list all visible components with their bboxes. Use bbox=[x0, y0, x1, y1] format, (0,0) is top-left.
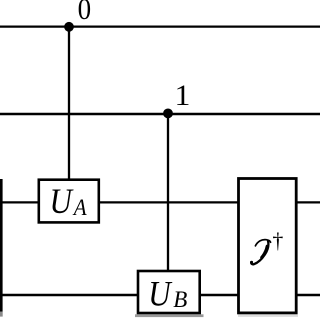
control dot 0 bbox=[64, 22, 74, 32]
svg-text:0: 0 bbox=[78, 0, 91, 26]
gate U_A box bbox=[39, 180, 99, 223]
label 0 bbox=[78, 0, 91, 26]
wire q3 bbox=[0, 294, 320, 296]
shadow bottom-left bbox=[0, 312, 3, 317]
dagger bbox=[272, 228, 283, 253]
svg-text:†: † bbox=[272, 228, 283, 253]
script J glyph bbox=[251, 240, 270, 265]
gate U_A label U bbox=[50, 182, 74, 221]
wire q0 bbox=[0, 25, 320, 27]
svg-text:U: U bbox=[50, 182, 74, 221]
cropped gate edge at left margin bbox=[0, 179, 3, 312]
shadow under U_B bbox=[135, 314, 204, 317]
control wire dot0 to U_A bbox=[68, 27, 70, 181]
gate U_B label subscript B bbox=[173, 286, 187, 312]
svg-text:B: B bbox=[173, 286, 187, 312]
wire q1 bbox=[0, 113, 320, 115]
control wire dot1 to U_B bbox=[167, 114, 169, 272]
gate U_B box bbox=[138, 271, 200, 313]
gate U_B label U bbox=[148, 274, 172, 313]
svg-text:U: U bbox=[148, 274, 172, 313]
script J ball terminal bbox=[250, 261, 253, 264]
shadow under J box bbox=[238, 315, 298, 317]
label 1 bbox=[175, 79, 191, 111]
gate U_A label subscript A bbox=[72, 194, 87, 220]
svg-text:1: 1 bbox=[175, 79, 191, 111]
gate J-dagger box bbox=[239, 179, 297, 313]
control dot 1 bbox=[163, 109, 173, 119]
svg-text:A: A bbox=[72, 194, 87, 220]
wire q2 bbox=[0, 201, 320, 203]
